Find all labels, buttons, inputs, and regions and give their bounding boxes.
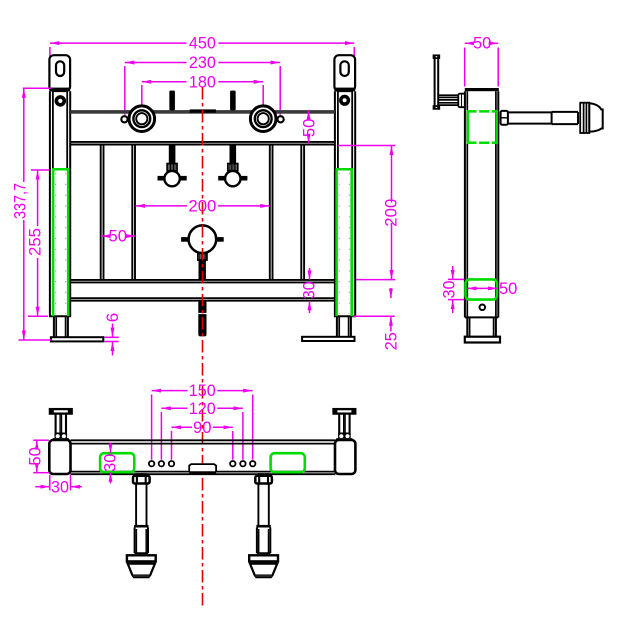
svg-text:255: 255	[26, 228, 45, 256]
dimension 50 bottom extension lines	[33, 440, 49, 473]
svg-text:30: 30	[300, 281, 319, 299]
left tab slot	[56, 61, 64, 76]
right rail bottom line	[334, 315, 356, 317]
dimension 120 extension lines	[161, 412, 243, 460]
side dimension 50 text	[473, 34, 492, 53]
side pipe dome cap	[589, 103, 602, 132]
svg-text:6: 6	[103, 313, 122, 322]
dimension 50 top-right text	[299, 119, 318, 137]
dimension 200 right line	[391, 146, 393, 280]
bottom green pad right	[271, 453, 305, 472]
dimension 90 line	[172, 426, 233, 428]
svg-text:200: 200	[382, 199, 401, 227]
side handle nut	[458, 94, 465, 108]
right rail inner lines	[338, 91, 352, 169]
svg-text:30: 30	[100, 454, 119, 472]
bottom bar holes	[149, 461, 255, 466]
bottom center notch	[189, 464, 216, 473]
side dimension 30 text	[440, 281, 459, 299]
side green strip upper	[467, 111, 499, 143]
left port ear	[121, 116, 127, 122]
svg-text:120: 120	[189, 399, 216, 418]
dimension 255 text	[26, 228, 45, 256]
dimension 450 extension lines	[50, 47, 354, 88]
central pipe clamp	[181, 225, 224, 253]
dimension 30 bottom	[35, 486, 82, 488]
dimension 6	[112, 324, 114, 356]
central clamp nut	[198, 253, 207, 260]
side handle plate	[434, 55, 440, 109]
flush pipe upper	[199, 260, 206, 280]
left rail inner lines	[53, 91, 67, 169]
side foot plate	[465, 337, 500, 343]
right water port	[250, 106, 276, 132]
left green strip	[52, 169, 69, 316]
dimension 25 text	[381, 332, 400, 350]
dimension 50 mid-left	[101, 235, 136, 237]
dimension 337.7 line	[23, 88, 25, 340]
dimension 200 right extension lines	[338, 146, 396, 280]
side column hole	[480, 305, 486, 311]
dimension 30 bottom extension lines	[50, 475, 71, 491]
dimension 180 line	[142, 81, 263, 83]
dimension 150 line	[152, 390, 253, 392]
left rail bottom line	[49, 315, 71, 317]
side green strip lower	[466, 279, 497, 299]
flush pipe lower	[198, 301, 206, 337]
left hanger bolt clamp	[158, 145, 187, 187]
left rail outer lines	[50, 91, 70, 316]
right wall tab	[334, 55, 355, 91]
second horizontal bar	[70, 142, 335, 145]
dimension 200 right text	[382, 199, 401, 227]
strut S2	[132, 145, 135, 280]
svg-text:50: 50	[473, 34, 492, 53]
side column	[465, 91, 498, 317]
centerline	[202, 87, 204, 607]
dimension 255 extension lines	[28, 170, 50, 316]
side dimension 30 extension lines	[448, 279, 465, 299]
svg-text:50: 50	[299, 119, 318, 137]
dimension 150 text	[189, 381, 216, 400]
dimension 50 top-right	[308, 110, 310, 143]
svg-text:30: 30	[51, 478, 69, 497]
dimension 90 extension lines	[172, 431, 233, 460]
svg-text:30: 30	[440, 281, 459, 299]
side column bottom line	[465, 316, 498, 318]
svg-text:150: 150	[189, 381, 216, 400]
dimension 450 text	[189, 34, 216, 53]
left foot plate	[51, 337, 103, 341]
right wall anchor	[334, 409, 356, 441]
strut S4	[301, 145, 304, 280]
right green strip	[336, 169, 353, 316]
bottom green pad left	[100, 453, 134, 472]
dimension 200 text	[188, 196, 216, 215]
top rail dark band	[70, 110, 335, 114]
right hanger bolt clamp	[218, 145, 247, 187]
side dimension 30	[452, 266, 454, 313]
dimension 6 text	[103, 313, 122, 322]
side pipe flange	[580, 103, 589, 133]
side dimension 50 mid	[467, 287, 498, 289]
svg-text:230: 230	[189, 53, 216, 72]
dimension 25 extension line	[353, 315, 395, 317]
left tab bolt	[55, 95, 66, 106]
strut S1	[101, 145, 104, 280]
top rail middle plate	[190, 109, 216, 112]
side dimension 50 mid text	[499, 279, 518, 298]
right tab bolt	[339, 95, 350, 106]
svg-text:337,7: 337,7	[10, 183, 29, 219]
dimension 230 text	[189, 53, 216, 72]
dimension 50 bottom text	[26, 447, 45, 466]
dimension 120 text	[189, 399, 216, 418]
dimension 30 right text	[300, 281, 319, 299]
bottom bar lines	[71, 440, 336, 474]
strut S3	[270, 145, 273, 280]
dimension 230 line	[125, 62, 280, 64]
dimension 200 line	[136, 205, 270, 207]
right tab slot	[340, 61, 348, 76]
svg-text:450: 450	[189, 34, 216, 53]
side pipe nut	[501, 111, 508, 125]
dimension 255 line	[37, 170, 39, 316]
dimension 230 extension lines	[125, 66, 280, 115]
side pipe wide section	[552, 112, 578, 124]
side leg	[467, 317, 496, 336]
dimension 450 line	[50, 42, 354, 44]
right stud	[230, 91, 236, 111]
right foot plate	[302, 337, 354, 341]
bottom bar left end cap	[49, 440, 70, 474]
dimension 30 bottom text	[51, 478, 69, 497]
side handle bracket	[439, 95, 459, 105]
left wall anchor	[50, 409, 72, 441]
dimension 337.7 text	[10, 183, 29, 219]
left wall tab	[49, 55, 70, 91]
dimension 50 mid-left text	[109, 227, 128, 246]
dimension 90 text	[193, 418, 212, 437]
dimension 30 pad text	[100, 454, 119, 472]
dimension 30 pad	[110, 443, 112, 484]
lower bar 1	[70, 280, 335, 283]
svg-text:50: 50	[26, 447, 45, 466]
right adjustable leg	[249, 473, 278, 577]
dimension 30 right	[309, 268, 311, 313]
side pipe shaft	[508, 112, 552, 124]
right port ear	[278, 116, 284, 122]
side dimension 50 line	[465, 42, 499, 44]
dimension 180 extension lines	[142, 85, 263, 118]
dimension 337.7 extension lines	[19, 88, 52, 340]
svg-text:50: 50	[499, 279, 518, 298]
right rail outer lines	[335, 91, 355, 316]
lower bar 2	[70, 298, 335, 301]
bottom bar right end cap	[335, 440, 355, 474]
side column top cap	[465, 88, 499, 91]
left adjustable leg	[127, 473, 156, 577]
left water port	[129, 106, 155, 132]
dimension 50 bottom	[36, 440, 38, 472]
dimension 150 extension lines	[152, 395, 253, 460]
left stud	[169, 91, 175, 111]
dimension 25	[390, 288, 392, 332]
dimension 6 extension lines	[105, 337, 119, 341]
right front leg	[337, 316, 351, 336]
svg-text:25: 25	[381, 332, 400, 350]
left front leg	[54, 316, 68, 337]
dimension 120 line	[161, 407, 243, 409]
svg-text:50: 50	[109, 227, 128, 246]
svg-text:90: 90	[193, 418, 212, 437]
side dimension 50 extension lines	[465, 48, 499, 87]
dimension 180 text	[189, 72, 216, 91]
